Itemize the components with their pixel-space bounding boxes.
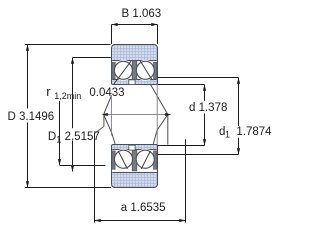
svg-text:1,2min: 1,2min bbox=[54, 91, 81, 101]
svg-text:1: 1 bbox=[56, 135, 61, 145]
svg-text:B 1.063: B 1.063 bbox=[122, 8, 162, 20]
svg-text:1.7874: 1.7874 bbox=[236, 126, 272, 138]
svg-text:d 1.378: d 1.378 bbox=[189, 102, 227, 114]
svg-text:0.0433: 0.0433 bbox=[89, 87, 124, 99]
svg-text:a 1.6535: a 1.6535 bbox=[121, 202, 166, 214]
svg-text:D 3.1496: D 3.1496 bbox=[8, 111, 55, 123]
svg-text:1: 1 bbox=[225, 130, 230, 140]
svg-text:D: D bbox=[48, 131, 56, 143]
svg-text:r: r bbox=[46, 84, 51, 99]
